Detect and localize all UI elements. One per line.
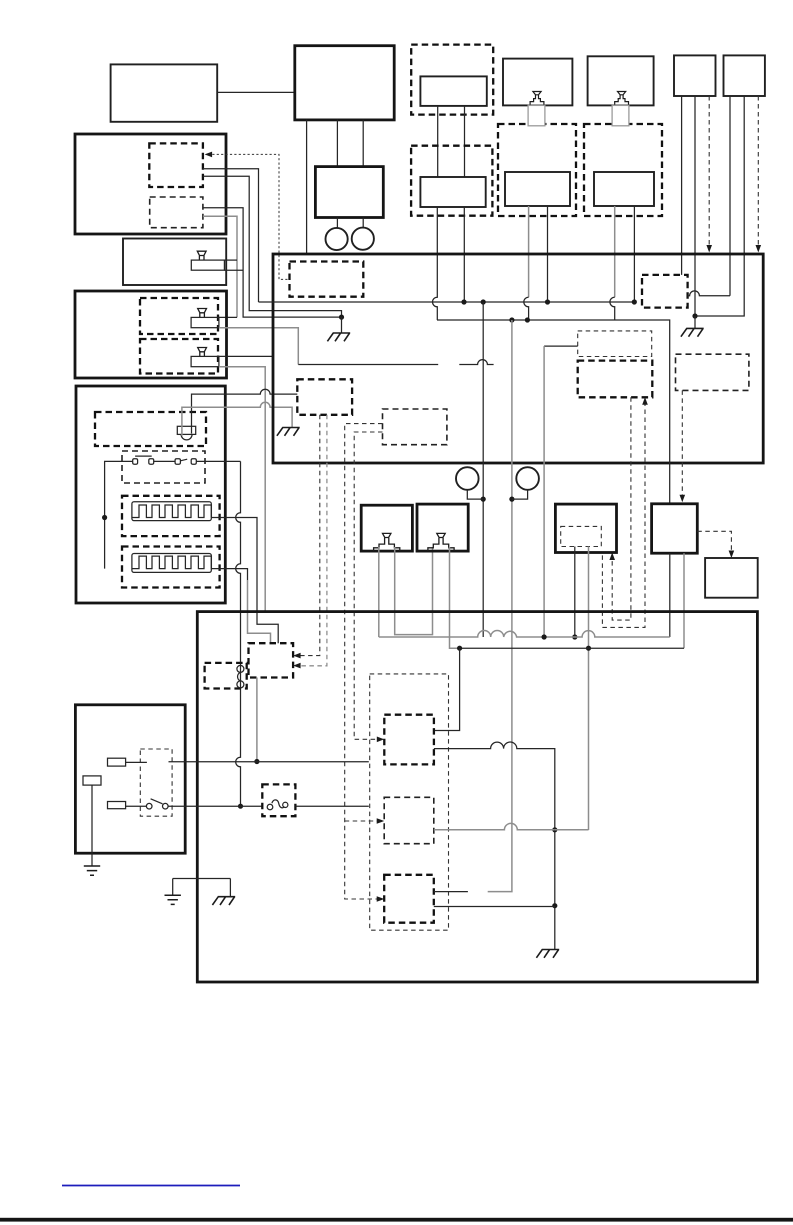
- indicator lamp 1: [456, 467, 479, 490]
- wire A (main horizontal with coil): [379, 631, 670, 638]
- connector fork sensor 2b: [198, 348, 207, 357]
- wire plug pin2 to ground 2 (hops V265): [182, 402, 292, 435]
- connector barrel E2: [612, 105, 629, 125]
- dashed line Q pin1 (to boxes B and C): [345, 424, 383, 899]
- footer black bar: [0, 1218, 793, 1222]
- junction dot bus2 b: [525, 317, 530, 322]
- terminal square 2: [149, 459, 154, 465]
- terminal square 1: [133, 459, 138, 465]
- relay module (thick dashed, bottom box): [249, 643, 294, 677]
- wire comb2 out: [211, 569, 247, 580]
- arrow into relay box pin1: [293, 653, 301, 659]
- dashed relay module R (band right): [676, 354, 749, 390]
- dashed module mid-right in band: [642, 275, 688, 308]
- wire switch1 gray pin down: [378, 547, 380, 637]
- connector symbol switch box 1: [374, 533, 400, 551]
- wire actuator left pin down to wireA: [669, 553, 671, 637]
- wire A-B link: [217, 91, 294, 93]
- wire B (horizontal below wireA): [460, 647, 684, 649]
- wire stem to ground 1: [341, 317, 343, 333]
- box E1 (top solid with connector): [503, 59, 572, 106]
- dashed actuator container: [370, 674, 449, 930]
- relay unit box (with connector, below cluster1): [123, 239, 226, 286]
- thermal cutout module (thick dashed, small): [205, 663, 247, 689]
- wire B mid pin to box C: [336, 120, 338, 167]
- connector fork in relay unit: [197, 251, 206, 260]
- junction dot left rail comb1: [102, 515, 107, 520]
- wire1 switch to container: [169, 761, 369, 763]
- wire monitor pin2 gray down: [588, 547, 590, 831]
- switch contact circle 2: [163, 803, 169, 809]
- wire ground rail to monitor gray riser: [555, 829, 589, 831]
- unit box 1 (top-left cluster): [75, 134, 226, 234]
- wire G2 pin1 down into central box: [729, 96, 731, 296]
- chassis ground 7 (bottom box): [536, 950, 559, 958]
- dashed line S2 pin1 (arrow up into S2): [602, 402, 645, 628]
- wire box A pin2 with coil to ground rail: [434, 742, 555, 950]
- wire1 stub fuse1 to switch: [126, 761, 147, 763]
- wire W1 module1a pin1 to bus1: [203, 169, 259, 302]
- junction dot ground node right: [692, 313, 697, 318]
- wire F2 left pin (gray, hops bus1, joins bus2): [614, 206, 616, 297]
- dashed control module 3a: [95, 412, 206, 446]
- arrow G1 dashed: [706, 245, 712, 253]
- box F2 inner: [594, 172, 654, 206]
- dashed control box Q: [383, 409, 447, 445]
- junction dot ground node left: [339, 315, 344, 320]
- arrow into module 1a: [205, 152, 213, 158]
- junction dot bus1 a: [461, 299, 466, 304]
- wire V1 terminal main vertical (hops comb wires and wire1): [236, 461, 241, 806]
- wire sensor 2a gray out: [219, 328, 298, 365]
- cutout curl 1: [237, 665, 244, 672]
- arrow into box B: [377, 818, 385, 824]
- actuator box (solid, right): [652, 504, 698, 553]
- wire F1 left pin (gray, hops bus1, joins bus2): [528, 206, 530, 297]
- box D1 inner: [420, 76, 486, 106]
- box D2 inner: [420, 177, 485, 207]
- terminal lever 3: [180, 459, 187, 461]
- aux box (small, right): [705, 558, 758, 598]
- connector body sensor 2a: [191, 317, 219, 327]
- dashed sensor 2a: [140, 298, 218, 334]
- battery element: [83, 776, 101, 785]
- arrow into box A: [377, 737, 385, 743]
- dashed wire G2 pin3 with arrow: [757, 96, 759, 247]
- cutout curl S-link: [238, 672, 241, 681]
- wire link switch1 to switch2 (U bridge): [395, 547, 433, 635]
- power unit box: [75, 705, 185, 853]
- switch lever: [151, 799, 163, 804]
- earth ground 5: [165, 895, 181, 904]
- wire F2 right pin to bus1 end: [633, 206, 635, 302]
- wire sensor 2b black out: [219, 355, 273, 357]
- arrow into module S2: [642, 397, 648, 405]
- box B (large top box): [295, 46, 394, 120]
- connector symbol E1: [530, 92, 544, 106]
- arrow G2 dashed: [756, 245, 762, 253]
- wire sensor2a top pin to W4 vertical: [219, 316, 237, 318]
- wire W2 module1a pin2: [203, 176, 342, 317]
- box F1 inner: [505, 172, 570, 206]
- unit box 2 (sensor cluster): [75, 291, 227, 378]
- wire plug pin1 (hops V265): [192, 389, 298, 433]
- wire G2 pin2 down to ground node: [696, 96, 744, 316]
- wire bus1 drop at 483: [482, 302, 484, 637]
- box G2 (small top right): [724, 55, 765, 96]
- wire C to lamp 2: [362, 218, 364, 228]
- heater element 2 comb: [132, 556, 212, 569]
- chassis ground 1: [327, 333, 350, 341]
- junction dot V1 wire2: [238, 804, 243, 809]
- dashed pcb inside monitor box: [561, 526, 602, 546]
- wire monitor pin1 down: [574, 547, 576, 638]
- junction dot monitor pin1: [572, 634, 577, 639]
- monitor box (solid, mid right): [555, 504, 616, 552]
- heater element 1 comb: [132, 505, 212, 518]
- dashed wire G1 pin3 with arrow: [708, 96, 710, 247]
- dashed switch module: [140, 749, 172, 816]
- dashed terminal strip 3b: [122, 451, 205, 483]
- wire2 switch to fuse box: [168, 805, 262, 807]
- wire lamp1 to node: [467, 490, 483, 499]
- wire module right pin with hop to G2: [688, 291, 730, 296]
- junction dot bus2 a: [509, 317, 514, 322]
- dashed module TL in band: [290, 262, 364, 297]
- heater switch box 2: [417, 504, 468, 551]
- motor box C (thick dashed): [384, 875, 434, 923]
- wire W3 module1b pin1: [203, 208, 342, 317]
- wire battery stem to ground 4: [91, 785, 93, 866]
- dashed module S1 (thin, band lower right): [578, 331, 652, 357]
- chassis ground 2: [277, 428, 300, 436]
- wire W4 module1b pin2 down: [203, 216, 237, 317]
- dashed line P pin1 down: [296, 415, 320, 656]
- switch contact circle 1: [146, 803, 152, 809]
- dashed line P pin2 down: [296, 415, 327, 666]
- wire C to lamp 1: [336, 218, 338, 229]
- dashed link actuator to aux box: [697, 531, 731, 552]
- plug symbol in module 3a: [177, 426, 195, 434]
- lamp circle 2: [352, 228, 374, 250]
- wire box B pin (hops gray512): [434, 823, 555, 829]
- dashed sensor 2b: [140, 339, 218, 374]
- wire lamp2 to node: [512, 490, 528, 499]
- wire bus2 drop gray at 512: [488, 320, 512, 892]
- ground rail mid: [173, 879, 231, 897]
- dashed module S2 (thick, band lower right): [578, 361, 653, 398]
- bus1 wire: [259, 301, 635, 303]
- dashed line Q pin2 (to box A): [354, 432, 382, 739]
- connector body in relay unit: [191, 260, 224, 270]
- dashed branch Q pin1 to box B: [345, 820, 381, 822]
- wire relay unit bottom pin to W3: [224, 269, 243, 271]
- thermal fuse box (thick dashed): [262, 784, 295, 816]
- thermal fuse curl right: [283, 802, 288, 807]
- fuse element 1: [108, 758, 126, 766]
- thermal fuse curl left: [267, 804, 273, 810]
- arrow into monitor box bottom: [609, 553, 615, 561]
- fuse element 2: [108, 802, 126, 809]
- wire stem to ground 3: [694, 316, 696, 328]
- plug bulge: [181, 434, 192, 440]
- junction dot bus1 b: [481, 299, 486, 304]
- motor box A (thick dashed): [384, 715, 434, 765]
- footer blue rule: [62, 1185, 240, 1187]
- dashed line S2 pin2 (arrow up into monitor box): [612, 397, 631, 620]
- box G1 (small top right): [674, 55, 716, 96]
- dashed heater block 2: [122, 547, 220, 588]
- wire B left pin down to central box: [306, 120, 308, 254]
- wire D1-D2 left: [437, 106, 439, 177]
- wire B right pin to box C: [362, 120, 364, 167]
- dashed unit D2: [411, 146, 492, 216]
- junction dot relay wire1: [254, 759, 259, 764]
- wire G1 pin2 down to ground node: [694, 96, 696, 316]
- dashed unit D1: [411, 45, 493, 115]
- box C (below box B): [315, 167, 383, 218]
- wire box C pin1 (with break): [434, 891, 468, 893]
- junction dot ground rail a: [552, 827, 557, 832]
- wire sensor 2b gray out (long vertical): [219, 367, 265, 612]
- terminal square 4: [191, 459, 196, 465]
- wire comb1 out: [211, 518, 278, 644]
- wire relay output gray down: [256, 678, 258, 762]
- wire F1 right pin to bus1: [547, 206, 549, 302]
- wire relay unit top pin to W4: [224, 259, 237, 261]
- heater element 2 outline: [132, 554, 211, 573]
- junction dot bus1 c: [545, 299, 550, 304]
- box E2 (top solid with connector): [588, 56, 654, 105]
- junction dot bus1 end: [632, 299, 637, 304]
- wire2 fuse box to container: [295, 805, 368, 807]
- heater element 1 outline: [132, 502, 211, 521]
- wire D1-D2 right: [464, 106, 466, 177]
- dashed unit F2: [584, 124, 662, 216]
- connector barrel E1: [528, 105, 545, 125]
- arrow into relay box pin2: [293, 663, 301, 669]
- indicator lamp 2: [516, 467, 539, 490]
- thermal fuse squiggle: [272, 800, 284, 808]
- dotted feedback line into module 1a: [208, 154, 290, 279]
- junction dot wireB: [457, 646, 462, 651]
- wire actuator right pin gray down to wireB: [683, 553, 685, 648]
- connector symbol E2: [615, 92, 629, 106]
- dashed heater block 1: [122, 496, 220, 536]
- wire switch2 right pin down to wireB: [450, 547, 460, 648]
- box A (top-left plain box): [111, 64, 218, 121]
- lamp circle 1: [326, 228, 348, 250]
- junction dot lamp1 node: [481, 497, 486, 502]
- chassis ground 3: [681, 328, 704, 336]
- arrow into aux box: [729, 551, 735, 559]
- wire terminal to V1: [196, 460, 240, 462]
- wire G1 pin1 down: [681, 96, 683, 275]
- wire into module S1: [544, 345, 578, 347]
- terminal bridge bar 1-2: [135, 455, 152, 457]
- wire terminal 2-3: [154, 460, 175, 462]
- wire terminal left rail: [105, 461, 133, 568]
- dashed sensor box P: [297, 379, 352, 415]
- bus2 wire: [437, 320, 670, 504]
- arrow into actuator box top: [680, 495, 686, 503]
- terminal square 3: [175, 459, 180, 465]
- junction dot lamp2 node: [509, 497, 514, 502]
- junction dot ground rail b: [552, 903, 557, 908]
- dashed module 1a: [149, 143, 203, 187]
- connector fork sensor 2a: [198, 309, 207, 318]
- motor box B (dashed): [384, 797, 434, 843]
- arrow into box C: [377, 896, 385, 902]
- connector body sensor 2b: [191, 356, 219, 366]
- dashed unit F1: [498, 124, 576, 216]
- dashed drop from module R with arrow: [681, 390, 683, 496]
- connector symbol switch box 2: [428, 533, 454, 551]
- central band box: [273, 254, 763, 463]
- cutout curl 2: [237, 681, 244, 688]
- wire D2 left pin to bus1 (hops bus1, joins bus2): [433, 207, 438, 320]
- heater switch box 1: [361, 505, 412, 551]
- junction dot wireA thin-box drop: [542, 634, 547, 639]
- wire2 fuse2 to switch contact: [126, 805, 146, 807]
- junction dot monitor pin2 on wireB: [586, 646, 591, 651]
- open wire mid band (from sensor 2a gray): [298, 360, 493, 365]
- wire from wireB down to box A pin: [434, 648, 460, 730]
- wire box C pin2 to ground rail: [434, 906, 555, 908]
- wire D2 right pin to bus1: [463, 207, 465, 302]
- dashed module 1b: [150, 197, 203, 228]
- chassis ground 6: [212, 897, 235, 905]
- unit box 3 (heater cluster): [76, 386, 225, 603]
- earth ground 4: [84, 866, 100, 875]
- bottom main box: [197, 612, 757, 982]
